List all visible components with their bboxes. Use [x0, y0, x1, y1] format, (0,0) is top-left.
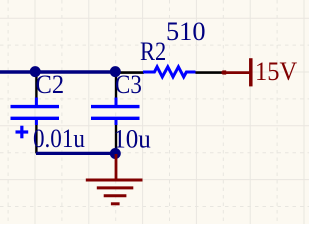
svg-text:0.01u: 0.01u	[33, 124, 85, 153]
svg-text:15V: 15V	[255, 57, 297, 86]
svg-text:R2: R2	[140, 37, 166, 66]
svg-text:C3: C3	[115, 70, 142, 99]
svg-text:C2: C2	[36, 70, 65, 99]
svg-text:510: 510	[166, 17, 206, 46]
svg-text:10u: 10u	[113, 125, 151, 154]
